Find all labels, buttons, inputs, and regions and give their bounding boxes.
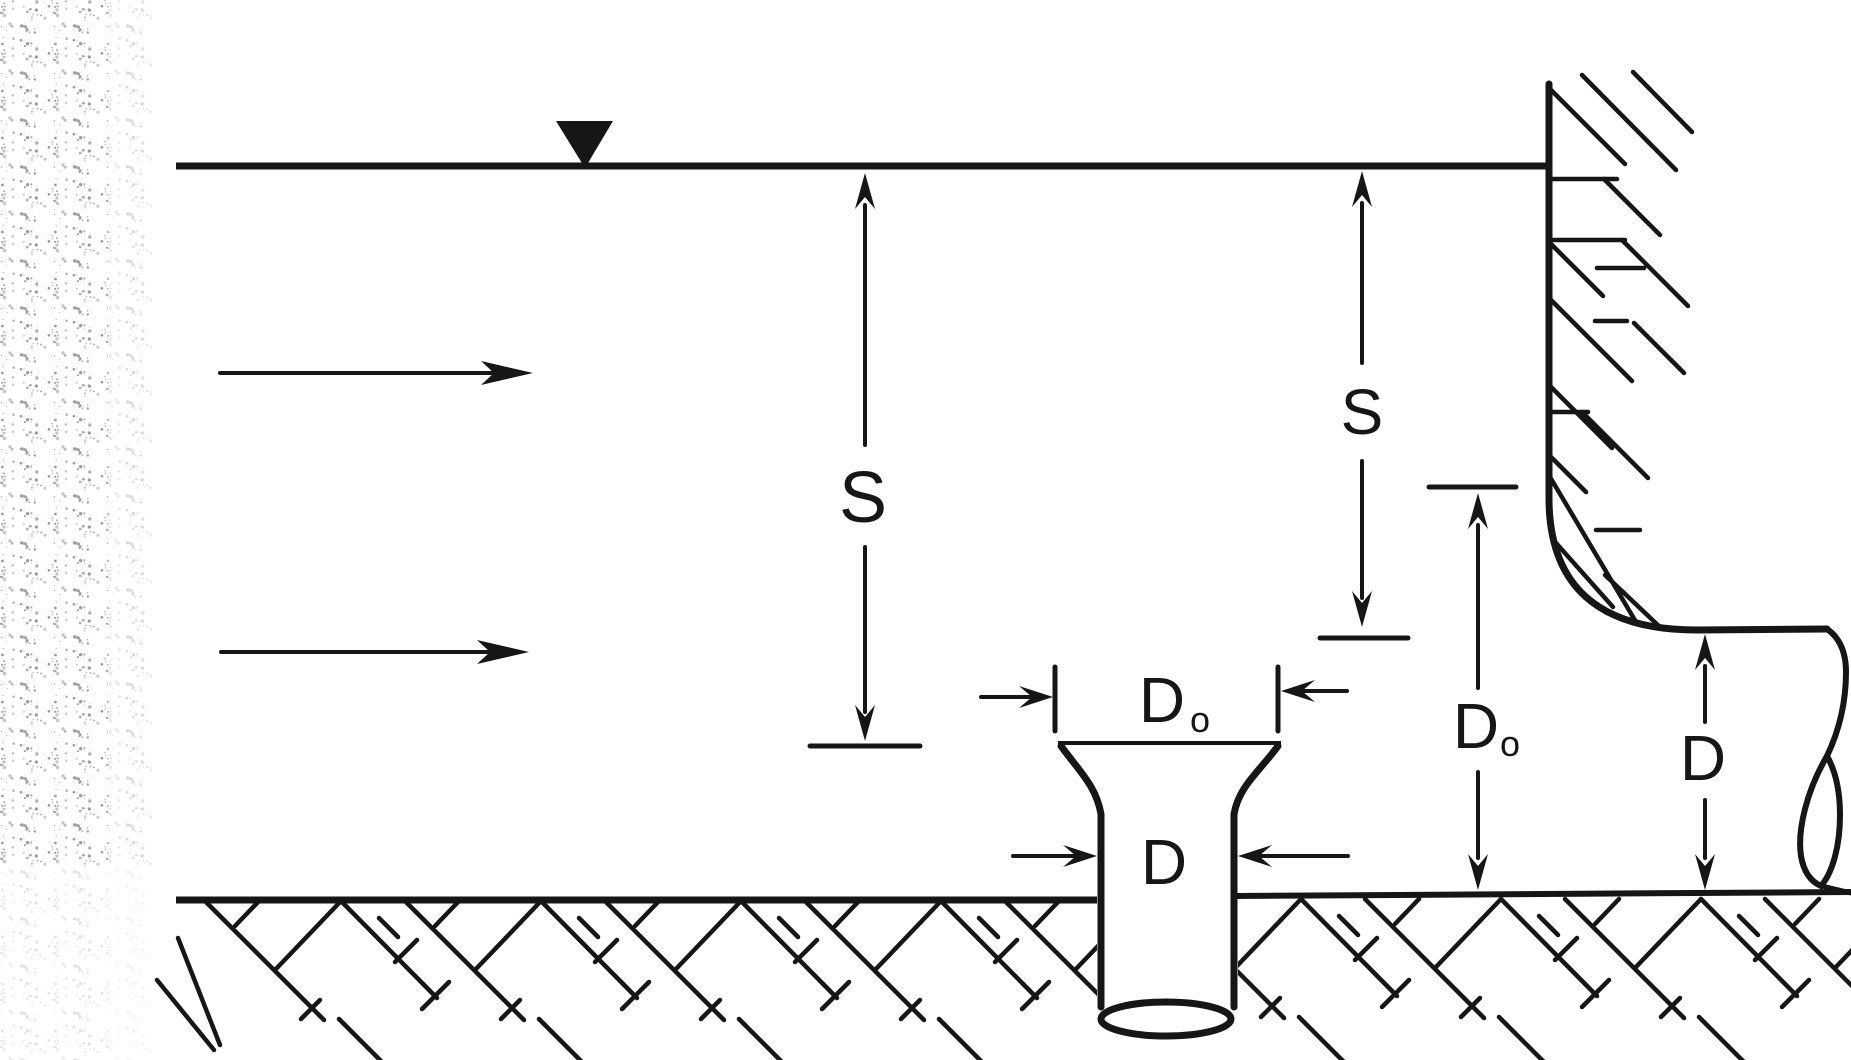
- svg-text:D: D: [1453, 690, 1499, 762]
- svg-text:D: D: [1680, 722, 1726, 794]
- svg-text:S: S: [1341, 376, 1384, 448]
- svg-text:D: D: [1141, 826, 1187, 898]
- svg-text:D: D: [1139, 664, 1185, 736]
- svg-text:o: o: [1190, 699, 1210, 740]
- svg-text:o: o: [1500, 723, 1520, 764]
- svg-text:S: S: [839, 458, 887, 538]
